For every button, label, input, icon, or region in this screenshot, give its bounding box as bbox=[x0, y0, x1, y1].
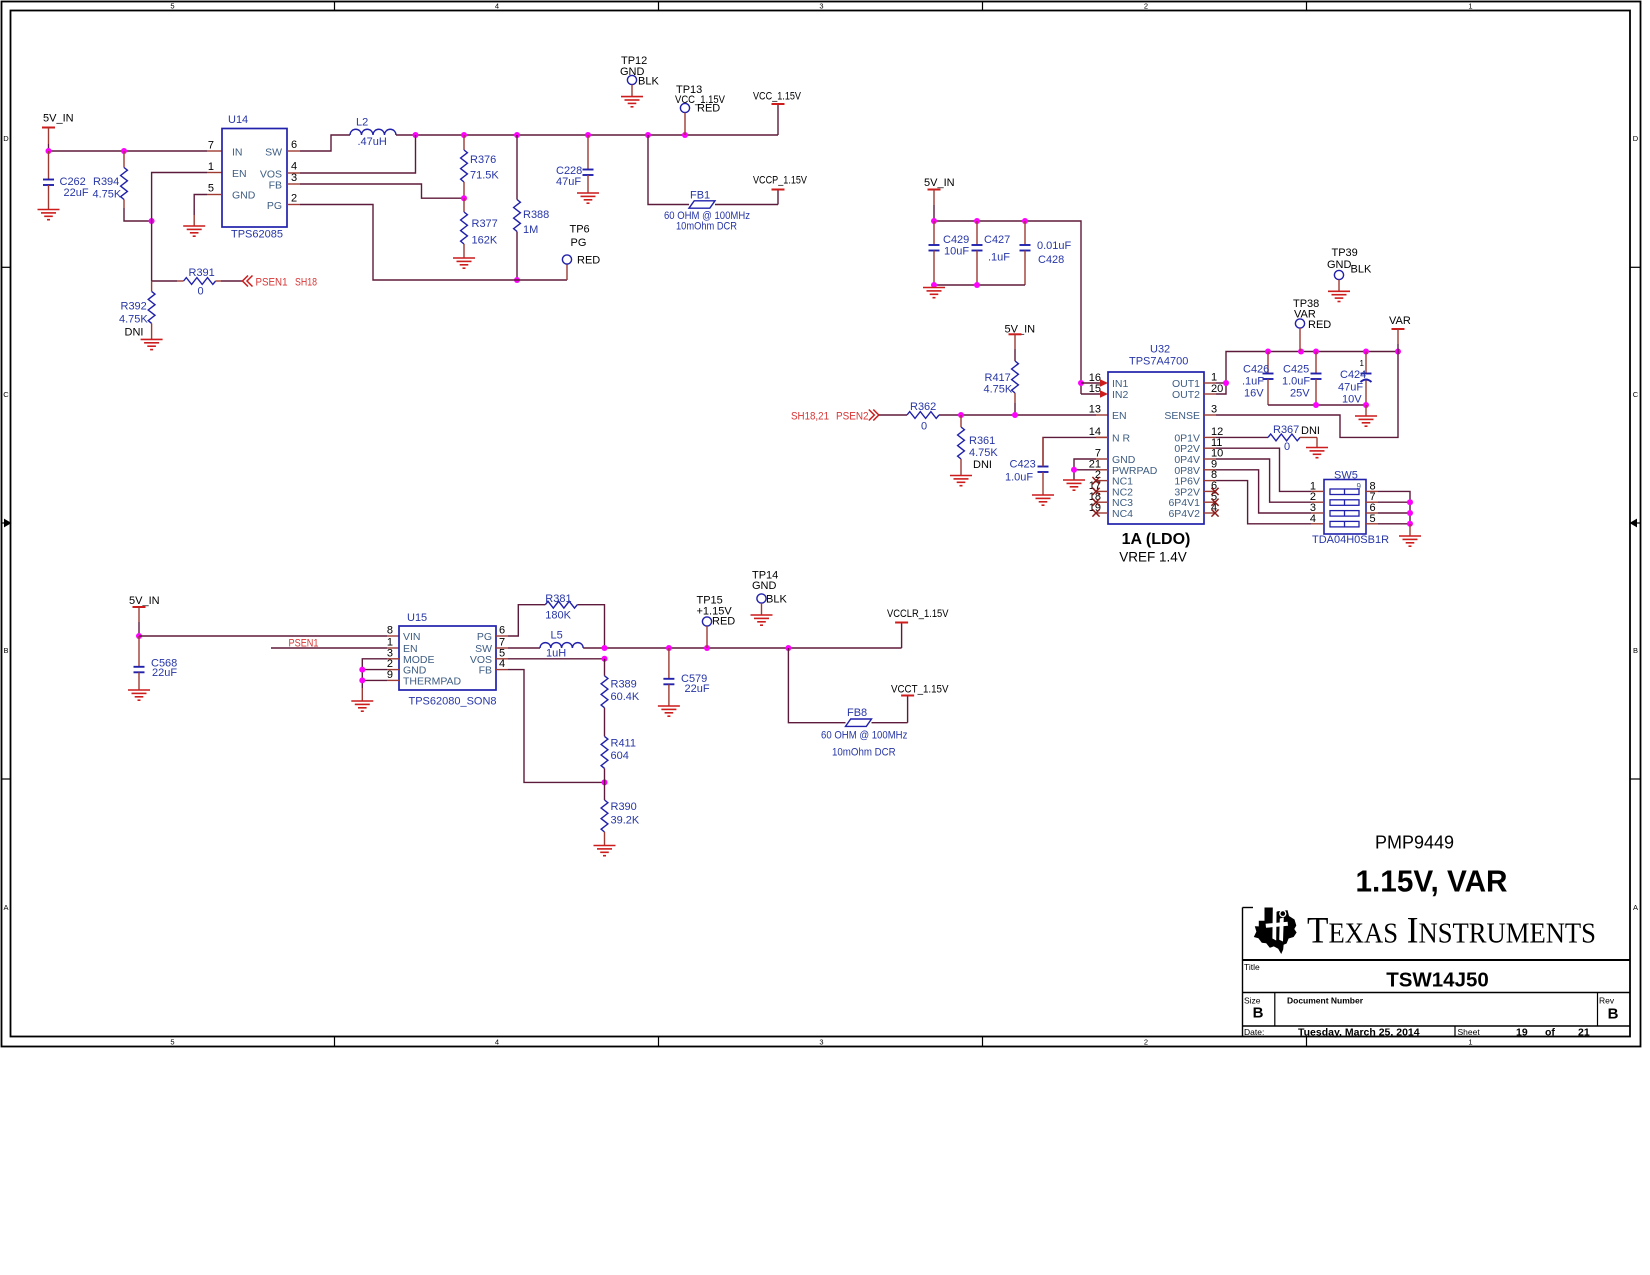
svg-text:C: C bbox=[3, 390, 9, 399]
svg-text:Sheet: Sheet bbox=[1458, 1027, 1481, 1037]
svg-text:VCCP_1.15V: VCCP_1.15V bbox=[753, 175, 808, 187]
svg-text:GND: GND bbox=[752, 580, 777, 592]
svg-text:.1uF: .1uF bbox=[988, 252, 1010, 264]
svg-text:VCCLR_1.15V: VCCLR_1.15V bbox=[887, 608, 949, 620]
svg-text:RED: RED bbox=[577, 255, 600, 267]
svg-text:Date:: Date: bbox=[1244, 1027, 1264, 1037]
svg-text:TPS62085: TPS62085 bbox=[231, 229, 283, 241]
svg-text:PG: PG bbox=[267, 200, 282, 212]
svg-text:4: 4 bbox=[495, 1, 499, 10]
svg-text:R377: R377 bbox=[472, 218, 498, 230]
svg-text:PSEN1: PSEN1 bbox=[256, 277, 288, 289]
svg-text:5: 5 bbox=[208, 183, 214, 195]
svg-text:A: A bbox=[1633, 903, 1638, 912]
svg-text:TPS7A4700: TPS7A4700 bbox=[1129, 356, 1188, 368]
svg-text:EN: EN bbox=[232, 168, 247, 180]
svg-text:5V_IN: 5V_IN bbox=[924, 177, 955, 189]
svg-text:Rev: Rev bbox=[1599, 996, 1615, 1006]
svg-text:D: D bbox=[3, 134, 9, 143]
svg-text:EN: EN bbox=[1112, 410, 1127, 422]
svg-text:162K: 162K bbox=[472, 235, 498, 247]
svg-text:B: B bbox=[3, 646, 8, 655]
svg-text:6: 6 bbox=[291, 139, 297, 151]
svg-text:C423: C423 bbox=[1010, 459, 1036, 471]
svg-text:R361: R361 bbox=[969, 435, 995, 447]
svg-text:3: 3 bbox=[291, 172, 297, 184]
svg-text:R390: R390 bbox=[611, 801, 637, 813]
svg-text:C428: C428 bbox=[1038, 254, 1064, 266]
svg-text:10mOhm DCR: 10mOhm DCR bbox=[676, 221, 737, 233]
svg-text:R392: R392 bbox=[121, 301, 147, 313]
svg-text:TPS62080_SON8: TPS62080_SON8 bbox=[409, 696, 497, 708]
svg-text:GND: GND bbox=[1327, 259, 1352, 271]
svg-text:4.75K: 4.75K bbox=[984, 384, 1013, 396]
svg-text:0: 0 bbox=[921, 421, 927, 433]
svg-text:4.75K: 4.75K bbox=[969, 447, 998, 459]
svg-text:C426: C426 bbox=[1243, 364, 1269, 376]
svg-text:2: 2 bbox=[1144, 1037, 1148, 1046]
svg-text:R388: R388 bbox=[523, 209, 549, 221]
svg-text:22uF: 22uF bbox=[64, 187, 89, 199]
svg-text:FB: FB bbox=[269, 180, 282, 192]
svg-text:RED: RED bbox=[1308, 319, 1331, 331]
svg-text:604: 604 bbox=[611, 750, 629, 762]
svg-text:180K: 180K bbox=[545, 610, 571, 622]
svg-text:R376: R376 bbox=[470, 154, 496, 166]
svg-text:25V: 25V bbox=[1290, 388, 1310, 400]
svg-text:60.4K: 60.4K bbox=[611, 691, 640, 703]
svg-text:L2: L2 bbox=[356, 117, 368, 129]
svg-text:SH18: SH18 bbox=[295, 277, 317, 289]
svg-text:SW: SW bbox=[265, 147, 282, 159]
svg-text:D: D bbox=[1633, 134, 1639, 143]
svg-text:R389: R389 bbox=[611, 679, 637, 691]
svg-text:10V: 10V bbox=[1342, 394, 1362, 406]
svg-text:10uF: 10uF bbox=[944, 246, 969, 258]
svg-text:8: 8 bbox=[387, 625, 393, 637]
svg-text:5V_IN: 5V_IN bbox=[129, 595, 160, 607]
svg-text:5: 5 bbox=[170, 1, 174, 10]
svg-text:Title: Title bbox=[1244, 962, 1260, 972]
svg-text:N R: N R bbox=[1112, 433, 1131, 445]
svg-text:21: 21 bbox=[1578, 1027, 1590, 1039]
svg-text:9: 9 bbox=[387, 669, 393, 681]
svg-text:4: 4 bbox=[495, 1037, 499, 1046]
svg-text:B: B bbox=[1253, 1005, 1264, 1022]
svg-text:R367: R367 bbox=[1273, 424, 1299, 436]
svg-text:VIN: VIN bbox=[403, 631, 421, 643]
svg-text:BLK: BLK bbox=[1351, 264, 1372, 276]
svg-text:1.0uF: 1.0uF bbox=[1005, 472, 1033, 484]
svg-text:1M: 1M bbox=[523, 224, 538, 236]
svg-text:VREF 1.4V: VREF 1.4V bbox=[1119, 550, 1187, 565]
svg-text:GND: GND bbox=[232, 190, 256, 202]
svg-text:PG: PG bbox=[571, 237, 587, 249]
svg-text:U14: U14 bbox=[228, 114, 248, 126]
svg-text:1: 1 bbox=[1360, 359, 1365, 368]
svg-text:VAR: VAR bbox=[1389, 315, 1411, 327]
svg-text:.1uF: .1uF bbox=[1242, 376, 1264, 388]
svg-text:1.0uF: 1.0uF bbox=[1282, 376, 1310, 388]
svg-text:SENSE: SENSE bbox=[1164, 410, 1200, 422]
svg-text:U32: U32 bbox=[1150, 344, 1170, 356]
svg-text:0: 0 bbox=[198, 286, 204, 298]
svg-text:1: 1 bbox=[208, 161, 214, 173]
svg-text:FB8: FB8 bbox=[847, 707, 867, 719]
svg-text:B: B bbox=[1633, 646, 1638, 655]
svg-text:R362: R362 bbox=[910, 401, 936, 413]
svg-text:RED: RED bbox=[712, 616, 735, 628]
svg-text:22uF: 22uF bbox=[152, 667, 177, 679]
svg-text:2: 2 bbox=[1144, 1, 1148, 10]
svg-text:0.01uF: 0.01uF bbox=[1037, 240, 1072, 252]
svg-text:PMP9449: PMP9449 bbox=[1375, 832, 1454, 853]
svg-text:1: 1 bbox=[1468, 1, 1472, 10]
svg-text:14: 14 bbox=[1089, 426, 1101, 438]
svg-text:20: 20 bbox=[1211, 383, 1223, 395]
svg-text:10mOhm DCR: 10mOhm DCR bbox=[832, 747, 896, 759]
svg-text:6P4V2: 6P4V2 bbox=[1168, 508, 1200, 520]
svg-text:BLK: BLK bbox=[766, 594, 787, 606]
svg-text:C429: C429 bbox=[943, 234, 969, 246]
svg-text:NC4: NC4 bbox=[1112, 508, 1133, 520]
svg-text:DNI: DNI bbox=[973, 459, 992, 471]
svg-text:TP15: TP15 bbox=[697, 594, 723, 606]
svg-text:DNI: DNI bbox=[1301, 425, 1320, 437]
svg-text:C425: C425 bbox=[1283, 364, 1309, 376]
svg-text:C: C bbox=[1633, 390, 1639, 399]
svg-text:4: 4 bbox=[1310, 513, 1316, 525]
svg-text:19: 19 bbox=[1516, 1027, 1528, 1039]
svg-text:1: 1 bbox=[1468, 1037, 1472, 1046]
svg-text:R391: R391 bbox=[189, 267, 215, 279]
svg-text:1: 1 bbox=[1211, 372, 1217, 384]
svg-text:4: 4 bbox=[291, 161, 297, 173]
svg-text:FB: FB bbox=[479, 665, 492, 677]
svg-text:PG: PG bbox=[477, 631, 492, 643]
svg-text:C427: C427 bbox=[984, 234, 1010, 246]
svg-text:TP6: TP6 bbox=[570, 224, 590, 236]
svg-text:6: 6 bbox=[499, 625, 505, 637]
svg-text:1.15V, VAR: 1.15V, VAR bbox=[1356, 864, 1508, 899]
svg-text:FB1: FB1 bbox=[690, 190, 710, 202]
svg-text:IN2: IN2 bbox=[1112, 389, 1129, 401]
svg-text:16V: 16V bbox=[1244, 388, 1264, 400]
svg-text:PSEN2: PSEN2 bbox=[836, 411, 869, 423]
svg-text:7: 7 bbox=[208, 140, 214, 152]
svg-text:5: 5 bbox=[170, 1037, 174, 1046]
svg-text:39.2K: 39.2K bbox=[611, 815, 640, 827]
svg-text:4.75K: 4.75K bbox=[119, 314, 148, 326]
svg-text:47uF: 47uF bbox=[556, 176, 581, 188]
svg-text:BLK: BLK bbox=[638, 76, 659, 88]
svg-text:IN: IN bbox=[232, 147, 243, 159]
svg-text:C424: C424 bbox=[1340, 369, 1366, 381]
svg-text:U15: U15 bbox=[407, 612, 427, 624]
svg-text:Tuesday, March 25, 2014: Tuesday, March 25, 2014 bbox=[1298, 1027, 1420, 1039]
svg-text:2: 2 bbox=[291, 193, 297, 205]
svg-text:5V_IN: 5V_IN bbox=[43, 113, 74, 125]
svg-text:THERMPAD: THERMPAD bbox=[403, 675, 462, 687]
svg-text:A: A bbox=[3, 903, 8, 912]
svg-text:15: 15 bbox=[1089, 383, 1101, 395]
svg-text:3: 3 bbox=[1211, 404, 1217, 416]
svg-text:VCC_1.15V: VCC_1.15V bbox=[753, 91, 802, 103]
svg-text:Document Number: Document Number bbox=[1287, 996, 1364, 1006]
svg-text:B: B bbox=[1608, 1006, 1619, 1023]
svg-text:3: 3 bbox=[819, 1, 823, 10]
svg-text:R417: R417 bbox=[985, 372, 1011, 384]
svg-text:L5: L5 bbox=[551, 630, 563, 642]
svg-text:60 OHM @ 100MHz: 60 OHM @ 100MHz bbox=[821, 730, 907, 742]
svg-text:R411: R411 bbox=[611, 738, 636, 750]
svg-text:1A (LDO): 1A (LDO) bbox=[1122, 531, 1191, 548]
svg-text:of: of bbox=[1545, 1027, 1555, 1039]
svg-text:RED: RED bbox=[697, 103, 720, 115]
svg-text:0: 0 bbox=[1284, 441, 1290, 453]
svg-text:TSW14J50: TSW14J50 bbox=[1386, 969, 1489, 992]
svg-text:5: 5 bbox=[1370, 513, 1376, 525]
svg-text:R394: R394 bbox=[93, 176, 119, 188]
svg-text:TDA04H0SB1R: TDA04H0SB1R bbox=[1312, 534, 1389, 546]
svg-text:R381: R381 bbox=[545, 593, 571, 605]
svg-text:OUT2: OUT2 bbox=[1172, 389, 1200, 401]
svg-text:SW5: SW5 bbox=[1334, 470, 1358, 482]
svg-text:DNI: DNI bbox=[125, 327, 144, 339]
svg-text:TP39: TP39 bbox=[1332, 247, 1358, 259]
svg-text:VCCT_1.15V: VCCT_1.15V bbox=[891, 684, 949, 696]
svg-text:22uF: 22uF bbox=[685, 683, 710, 695]
svg-text:.47uH: .47uH bbox=[358, 136, 387, 148]
svg-text:71.5K: 71.5K bbox=[470, 170, 499, 182]
svg-text:1uH: 1uH bbox=[546, 648, 566, 660]
svg-text:4: 4 bbox=[499, 658, 505, 670]
svg-text:47uF: 47uF bbox=[1338, 382, 1363, 394]
svg-text:SH18,21: SH18,21 bbox=[791, 411, 829, 423]
svg-text:13: 13 bbox=[1089, 404, 1101, 416]
svg-text:4.75K: 4.75K bbox=[93, 189, 122, 201]
svg-text:3: 3 bbox=[819, 1037, 823, 1046]
